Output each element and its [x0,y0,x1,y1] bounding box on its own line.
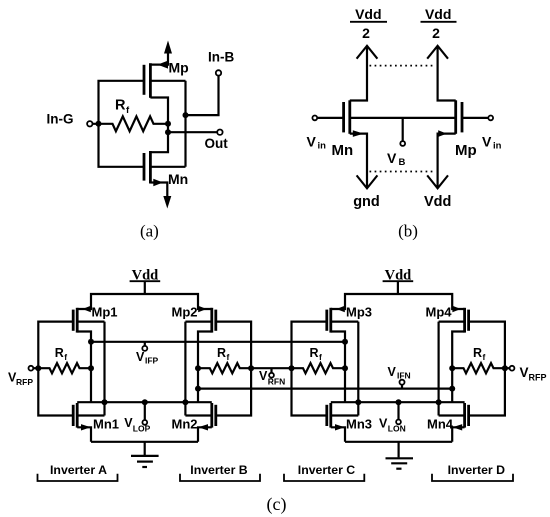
svg-text:In-G: In-G [47,112,74,127]
svg-text:Out: Out [205,136,229,151]
ground symbol left [131,455,159,457]
wire: Vdd stub left [144,281,146,294]
arrow: open arrowhead down (left) [357,175,378,188]
svg-text:Mn3: Mn3 [346,417,372,432]
svg-text:Mp: Mp [455,142,477,159]
node: junction output B / VIFN row [195,386,201,392]
wire: node row VIFN (output B to output D) [198,388,452,390]
arrow: Mn2 source arrow [198,424,208,430]
transistor Mp channel [149,63,152,98]
svg-text:(b): (b) [398,222,418,241]
terminal Vin right [488,116,493,121]
wire: drain row Mn1-Mn2 [77,401,212,403]
wire: gate loop of inverter (Mp4/Mn4 gates) [469,322,505,416]
wire: Mn2 body lead [185,414,211,416]
svg-text:V: V [482,134,492,150]
arrow: Mp1 source arrow [82,306,90,313]
terminal VB [400,141,405,146]
wire: Mn3 source to ground rail [331,427,345,442]
transistor Mp gate bar [143,65,146,95]
node: junction on drain row at x=358.3 [355,399,361,405]
svg-text:Vdd: Vdd [424,194,451,210]
transistor Mn channel [348,100,351,134]
svg-text:Mp3: Mp3 [346,305,372,320]
svg-text:Mn4: Mn4 [427,417,454,432]
svg-text:Mp1: Mp1 [92,305,118,320]
transistor Mp2 channel [210,308,213,333]
node: junction output C / VIFP row [342,339,348,345]
wire: Mp4 drain / inverter output column [452,332,464,403]
wire: ground rail C-D [345,441,452,443]
wire: Mp2 body lead [185,321,211,323]
ground symbol right [386,457,414,459]
wire: body rail inverter 4 [438,322,440,416]
circuit (a): CMOS inverter with feedback resistor, dual-gate inputs [47,41,235,241]
node: junction output D / VIFN row [449,386,455,392]
wire: Mn1 body lead [77,414,104,416]
wire: VRFN stub [270,368,272,373]
supply down-arrow (Mn source) [163,196,171,209]
arrow: Mn1 source arrow [81,424,91,430]
wire: body rail (In-B net) [184,81,186,167]
wire: Vdd stub right [397,281,399,294]
wire: VRFP right lead [505,367,510,369]
terminal Out [217,130,222,135]
svg-text:R: R [217,346,226,360]
arrow: Mp4 source arrow [452,306,460,313]
svg-text:Vdd: Vdd [425,6,451,22]
wire: dotted link bottom [370,171,436,173]
wire: Mn3 body lead [331,414,359,416]
svg-text:in: in [493,141,502,152]
wire: VIFP stub [144,342,146,346]
node: junction on resistor row at x=504.9 [502,365,508,371]
svg-text:Mp2: Mp2 [172,305,198,320]
svg-text:LON: LON [388,423,406,433]
svg-text:Vdd: Vdd [355,6,381,22]
svg-text:f: f [64,352,67,362]
svg-text:f: f [319,352,322,362]
terminal Vin left [312,116,317,121]
svg-text:R: R [310,346,319,360]
bracket Inverter B [180,474,260,481]
svg-text:Inverter B: Inverter B [190,463,248,477]
svg-text:f: f [227,352,230,362]
wire: Vin gate lead right [462,117,488,119]
transistor Mn4 gate bar [467,405,470,426]
wire: In-B lead [186,76,219,116]
node: output junction [165,129,171,135]
circuit (b): body-biased transistor pair [307,6,502,241]
node: junction on drain row at x=438.6 [436,399,442,405]
wire: Mp2 drain / inverter output column [198,332,212,403]
arrow: Mp source arrow (points toward channel) [438,130,447,137]
node: junction on resistor row at x=345 [342,365,348,371]
transistor Mp2 gate bar [214,310,217,331]
terminal VIFP [142,346,147,351]
wire: Mp3 body lead [331,321,359,323]
wire: VLON stub [397,402,399,419]
wire: body line (VB net) [350,117,456,119]
wire: Mn2 source to ground rail [198,427,212,442]
terminal In-G [87,121,92,126]
svg-text:Inverter A: Inverter A [50,463,107,477]
wire: Vdd rail C-D with Mp3/Mp4 source leads [331,294,465,309]
transistor Mp3 gate bar [325,310,328,331]
svg-text:R: R [55,346,64,360]
transistor Mn4 channel [463,403,466,428]
svg-text:Mn2: Mn2 [172,417,198,432]
wire: VRFN row segment [251,367,291,369]
wire: Mp drain riser to Vdd/2 [438,47,456,101]
node: junction on drain row at x=144.8 [142,399,148,405]
node: In-G / loop / resistor junction [96,121,102,127]
resistor Rf (inverter A) [38,363,91,373]
wire: Mn source to negative rail [150,183,167,200]
svg-text:V: V [136,350,145,364]
node: junction on drain row at x=104.5 [102,399,108,405]
arrow: Mn4 source arrow [453,424,463,430]
svg-text:R: R [115,98,126,114]
terminal VRFN [269,373,274,378]
transistor Mp channel [454,100,457,134]
node: resistor to output junction [165,121,171,127]
transistor Mn gate bar [342,102,345,132]
svg-text:RFN: RFN [268,377,285,387]
wire: VB stub [402,118,404,141]
wire: VLOP stub [144,402,146,420]
transistor Mn1 channel [76,403,79,428]
wire: Mp4 body lead [439,321,465,323]
svg-text:LOP: LOP [133,423,151,433]
terminal VLON [396,420,401,425]
transistor Mn2 gate bar [214,405,217,426]
wire: Mn source to gnd [350,134,367,187]
resistor Rf [92,116,168,131]
arrow: open arrowhead down (right) [427,175,448,188]
transistor Mp gate bar [461,102,464,132]
supply up-arrow (Mp source to positive rail) [164,41,172,54]
node: junction output A / VIFP row [88,339,94,345]
svg-text:V: V [387,150,397,166]
transistor Mp1 gate bar [72,310,75,331]
bracket Inverter D [432,474,513,481]
svg-text:gnd: gnd [353,194,380,210]
transistor Mn2 channel [210,403,213,428]
wire: ground stub right [398,442,400,458]
node: junction on resistor row at x=251.1 [248,365,254,371]
arrow: Mn3 source arrow [335,424,345,430]
transistor Mp4 gate bar [467,310,470,331]
svg-text:V: V [520,365,529,380]
terminal VLOP [142,420,147,425]
transistor Mp4 channel [463,308,466,333]
transistor Mn channel [149,151,152,184]
node: junction on resistor row at x=452.2 [449,365,455,371]
svg-text:Mn: Mn [332,142,354,159]
wire: Vdd rail A-B with Mp1/Mp2 source leads [77,294,212,309]
wire: gate loop of inverter (Mp1/Mn1 gates) [38,322,73,416]
svg-text:V: V [307,134,317,150]
svg-text:in: in [318,141,327,152]
arrow: open arrowhead up (right) [427,46,448,59]
transistor Mn3 channel [329,403,332,428]
terminal VRFP left [29,366,34,371]
resistor Rf (inverter D) [452,363,505,373]
wire: Mp3 drain / inverter output column [331,332,345,403]
node: junction on drain row at x=398.5 [396,399,402,405]
transistor Mn1 gate bar [72,405,75,426]
svg-text:V: V [379,416,388,430]
svg-text:V: V [388,365,397,379]
resistor Rf (inverter B) [198,363,251,373]
svg-text:In-B: In-B [208,50,234,65]
node: junction on resistor row at x=38.3 [35,365,41,371]
node: junction on resistor row at x=198 [195,365,201,371]
wire: Mp1 drain / inverter output column [77,332,91,403]
wire: Mn4 source to ground rail [452,427,464,442]
svg-text:Mp4: Mp4 [426,305,453,320]
wire: Mp source to Vdd [438,134,456,187]
wire: Mn4 body lead [439,414,465,416]
wire: VIFN stub [401,385,403,389]
node: junction on resistor row at x=291.5 [289,365,295,371]
svg-text:Mn1: Mn1 [93,417,119,432]
svg-text:Mp: Mp [169,59,189,75]
svg-text:IFP: IFP [145,356,159,366]
wire: ground stub left [144,442,146,455]
svg-text:f: f [483,352,486,362]
wire: ground rail A-B [91,441,198,443]
svg-text:RFP: RFP [16,377,33,387]
wire: output lead [168,131,217,133]
svg-text:R: R [473,346,482,360]
wire: Mn drain riser to Vdd/2 [350,47,367,101]
circuit (c): four body-driven inverters A-D with feedback resistors [8,267,547,515]
wire: VRFP left lead [33,367,38,369]
svg-text:RFP: RFP [529,373,547,383]
transistor Mn3 gate bar [325,405,328,426]
svg-text:V: V [259,369,268,383]
wire: Vdd supply shaft of Mp source [150,48,168,65]
arrow: Mn source arrow [353,130,364,137]
transistor Mp3 channel [329,308,332,333]
wire: drain row Mn3-Mn4 [331,401,465,403]
svg-text:(c): (c) [267,494,287,515]
node: In-B junction on body rail [183,112,189,118]
terminal In-B [216,70,221,75]
wire: body rail inverter 3 [357,322,359,416]
wire: Mn1 source to ground rail [77,427,91,442]
terminal VIFN [400,380,405,385]
arrow: open arrowhead up (left) [357,46,378,59]
wire: body rail inverter 1 [103,322,105,416]
wire: dotted link top [370,65,436,67]
wire: Mn body lead [150,166,185,168]
terminal VRFP right [510,366,515,371]
arrow: Mn source arrow (points away from channel) [153,179,163,186]
node: junction on drain row at x=185.4 [182,399,188,405]
svg-text:2: 2 [362,25,370,41]
svg-text:2: 2 [432,25,440,41]
wire: gate loop of inverter (Mp2/Mn2 gates) [216,322,251,416]
svg-text:IFN: IFN [397,371,411,381]
arrow: Mp source arrow (points toward channel) [158,61,169,69]
svg-text:B: B [399,157,406,168]
transistor Mn gate bar [143,153,146,181]
wire: gate loop of inverter (Mp3/Mn3 gates) [292,322,327,416]
wire: feedback loop (In-G to gates of Mp and Mn) [99,81,145,167]
wire: Mp body lead [150,80,185,82]
svg-text:Inverter C: Inverter C [298,463,356,477]
wire: Mp1 body lead [77,321,104,323]
wire: node row VIFP (output A to output C) [91,341,345,343]
wire: Vin gate lead left [317,117,343,119]
bracket Inverter A [38,474,118,481]
arrow: Mp2 source arrow [198,306,206,313]
wire: Mp drain to output node [150,98,168,153]
svg-text:Inverter D: Inverter D [448,463,506,477]
svg-text:(a): (a) [140,222,159,241]
resistor Rf (inverter C) [292,363,346,373]
arrow: Mp3 source arrow [336,306,344,313]
wire: body rail inverter 2 [184,322,186,416]
node: junction on resistor row at x=91 [88,365,94,371]
transistor Mp1 channel [76,308,79,333]
svg-text:Mn: Mn [168,171,188,187]
bracket Inverter C [284,474,364,481]
